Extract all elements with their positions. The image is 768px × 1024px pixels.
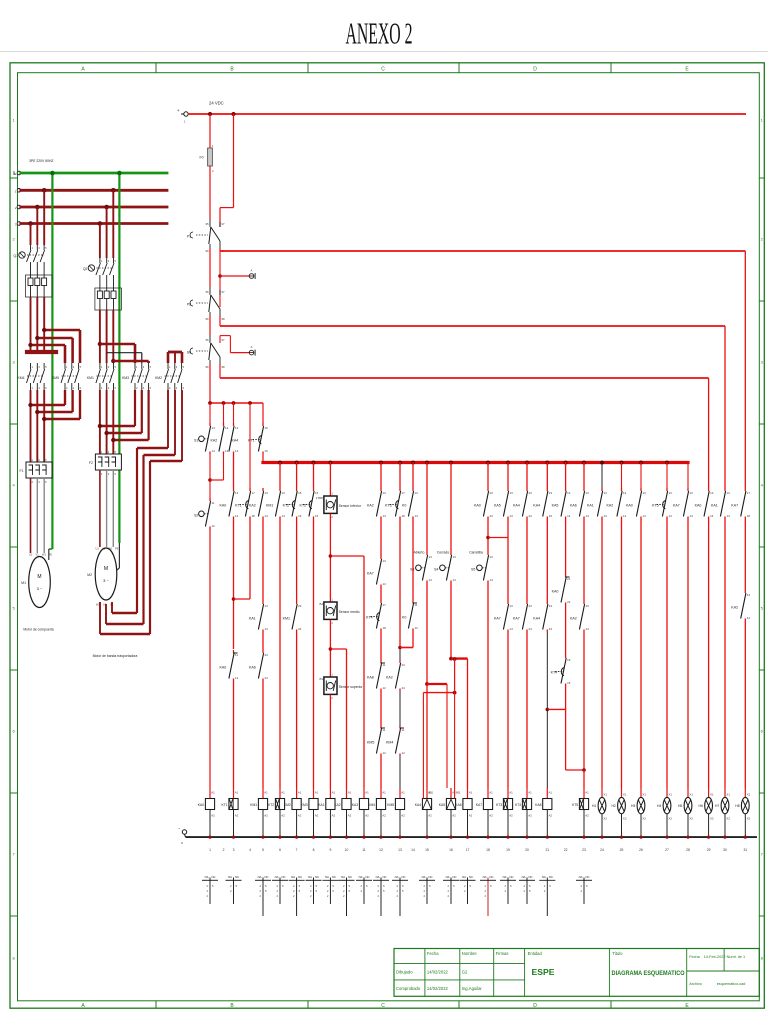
contact KA4 col21 lower xyxy=(533,601,552,632)
wire KA5 B01 stub xyxy=(455,788,462,799)
svg-text:2: 2 xyxy=(32,480,34,484)
svg-text:1: 1 xyxy=(209,848,211,852)
svg-text:PE: PE xyxy=(49,553,53,557)
junction node row col1 xyxy=(208,401,212,405)
svg-text:97: 97 xyxy=(222,290,226,294)
svg-text:B1: B1 xyxy=(320,677,324,681)
svg-text:13: 13 xyxy=(265,491,269,495)
svg-text:5: 5 xyxy=(429,884,431,888)
cross-reference table KM3 xyxy=(306,875,322,904)
svg-text:E: E xyxy=(14,172,16,176)
svg-text:5: 5 xyxy=(332,889,334,893)
svg-text:13: 13 xyxy=(510,491,514,495)
wire S0-12 down to node row xyxy=(209,364,211,403)
svg-text:2: 2 xyxy=(377,889,379,893)
svg-text:6: 6 xyxy=(45,386,47,390)
svg-text:2: 2 xyxy=(464,889,466,893)
contact KA0 col3 xyxy=(220,488,239,519)
svg-text:6: 6 xyxy=(12,729,15,734)
junction power tap xyxy=(111,188,116,193)
svg-text:KA2: KA2 xyxy=(386,676,393,680)
svg-text:13: 13 xyxy=(604,491,608,495)
svg-text:A2: A2 xyxy=(235,814,239,818)
svg-text:3: 3 xyxy=(176,365,178,369)
wire PE drop motor1 xyxy=(51,173,53,549)
svg-text:A1: A1 xyxy=(235,791,239,795)
contact KA4 col21 xyxy=(533,488,552,519)
svg-text:A2: A2 xyxy=(365,814,369,818)
wire rail 2 xyxy=(220,250,745,252)
wire step feed P1-NO xyxy=(220,114,234,227)
svg-text:96: 96 xyxy=(206,317,210,321)
svg-text:NC: NC xyxy=(510,875,514,879)
svg-text:17: 17 xyxy=(747,491,751,495)
wire M2 bottom loop c xyxy=(100,602,150,634)
svg-text:S1: S1 xyxy=(194,439,198,443)
svg-text:DIAGRAMA ESQUEMATICO: DIAGRAMA ESQUEMATICO xyxy=(612,970,685,977)
contact KA1 col5 xyxy=(249,601,268,632)
coil KT4 xyxy=(515,788,532,837)
svg-text:2: 2 xyxy=(447,894,449,898)
svg-text:13: 13 xyxy=(415,491,419,495)
svg-text:2: 2 xyxy=(504,889,506,893)
svg-text:5: 5 xyxy=(115,450,117,454)
cross-reference table KA2 xyxy=(339,875,355,916)
svg-text:NC: NC xyxy=(586,875,590,879)
wire col7 bus drop xyxy=(296,462,298,488)
svg-text:KT4: KT4 xyxy=(515,803,521,807)
svg-text:17: 17 xyxy=(383,603,387,607)
svg-text:B2: B2 xyxy=(320,602,324,606)
junction rail col16 xyxy=(449,836,452,839)
svg-text:4: 4 xyxy=(12,483,15,488)
svg-text:X2: X2 xyxy=(710,817,714,821)
junction km1 feeds xyxy=(98,342,116,363)
svg-text:NA: NA xyxy=(542,875,546,879)
cross-reference table KA5 xyxy=(443,875,459,904)
svg-text:2: 2 xyxy=(331,696,333,700)
svg-text:14: 14 xyxy=(710,514,714,518)
svg-text:17: 17 xyxy=(466,848,470,852)
wire rail 3 xyxy=(220,325,725,327)
svg-text:4: 4 xyxy=(73,386,75,390)
svg-text:96: 96 xyxy=(206,365,210,369)
svg-text:KA2: KA2 xyxy=(211,439,218,443)
svg-text:5: 5 xyxy=(366,884,368,888)
wire KM3 feed c xyxy=(113,361,148,363)
svg-text:2: 2 xyxy=(259,894,261,898)
wire col11 feed xyxy=(363,556,365,788)
svg-text:2: 2 xyxy=(293,889,295,893)
svg-text:2: 2 xyxy=(504,884,506,888)
svg-text:2: 2 xyxy=(101,472,103,476)
svg-text:13: 13 xyxy=(623,491,627,495)
svg-text:14/02/2022: 14/02/2022 xyxy=(427,986,449,991)
svg-text:A1: A1 xyxy=(264,791,268,795)
svg-text:A2: A2 xyxy=(264,814,268,818)
svg-text:X2: X2 xyxy=(623,817,627,821)
svg-text:2: 2 xyxy=(223,848,225,852)
wire col12 a xyxy=(380,519,382,556)
wire col3 node-KA4 xyxy=(233,403,235,423)
svg-text:Dibujado: Dibujado xyxy=(396,969,413,974)
wire col15 bus drop xyxy=(426,462,428,552)
svg-text:2: 2 xyxy=(484,889,486,893)
svg-text:13: 13 xyxy=(453,555,457,559)
svg-text:2: 2 xyxy=(101,386,103,390)
cross-reference table KA7 xyxy=(480,875,496,916)
svg-text:14: 14 xyxy=(567,514,571,518)
svg-text:Fecha: Fecha xyxy=(427,951,439,956)
svg-text:KA8: KA8 xyxy=(535,803,542,807)
svg-text:15: 15 xyxy=(425,848,429,852)
svg-text:23: 23 xyxy=(490,491,494,495)
svg-text:K0: K0 xyxy=(402,616,406,620)
terminal PE xyxy=(14,171,21,176)
pushbutton S4 Cerrado xyxy=(434,552,456,583)
wire col21 b xyxy=(546,632,548,709)
cross-reference table KA8 xyxy=(539,875,555,916)
svg-text:B01: B01 xyxy=(429,791,434,795)
svg-text:22: 22 xyxy=(567,600,571,604)
svg-text:C: C xyxy=(381,67,385,73)
svg-text:2: 2 xyxy=(423,889,425,893)
wire col18 a xyxy=(487,519,489,552)
svg-text:24: 24 xyxy=(298,627,302,631)
wire col6 bus drop xyxy=(279,462,281,488)
cross-reference table KT3 xyxy=(500,875,516,904)
wire col13 a xyxy=(399,519,401,648)
coil KT1 xyxy=(221,788,238,837)
junction rail col6 xyxy=(278,836,281,839)
svg-text:6: 6 xyxy=(115,472,117,476)
cross-reference table KM1 xyxy=(255,875,271,916)
svg-text:KA1: KA1 xyxy=(249,617,256,621)
svg-text:24: 24 xyxy=(549,514,553,518)
svg-text:KM4: KM4 xyxy=(386,741,393,745)
sensor B2 medio xyxy=(320,598,360,626)
svg-text:12: 12 xyxy=(383,751,387,755)
wire col21 to coil KA8 xyxy=(546,709,548,788)
wire KA4 B01 stub xyxy=(423,788,433,799)
svg-text:KT2: KT2 xyxy=(283,504,290,508)
svg-text:A1: A1 xyxy=(298,791,302,795)
coil KA4 xyxy=(415,788,432,837)
svg-text:M2: M2 xyxy=(87,573,92,577)
wire KM5 return c xyxy=(44,390,80,419)
svg-text:+: + xyxy=(177,108,180,113)
svg-text:16: 16 xyxy=(265,449,269,453)
junction power tap xyxy=(42,188,47,193)
wire col23 a xyxy=(583,519,585,601)
contact KA5 col19 xyxy=(494,488,513,519)
wire Q1 feeders xyxy=(31,190,45,245)
svg-text:2: 2 xyxy=(544,884,546,888)
svg-text:1: 1 xyxy=(32,458,34,462)
svg-text:W1: W1 xyxy=(109,547,113,551)
wire M2 bottom loop a xyxy=(112,602,137,613)
svg-text:9: 9 xyxy=(329,848,331,852)
svg-text:KA7: KA7 xyxy=(494,617,501,621)
svg-text:2: 2 xyxy=(580,889,582,893)
svg-text:30: 30 xyxy=(723,848,727,852)
svg-text:1: 1 xyxy=(169,365,171,369)
svg-text:14: 14 xyxy=(383,582,387,586)
svg-text:2: 2 xyxy=(377,894,379,898)
junction col9 y556 xyxy=(329,554,333,558)
contact KT1 col5 top xyxy=(248,423,268,454)
wire col23 bus drop xyxy=(583,462,585,488)
cross-reference table KM4 xyxy=(373,875,389,916)
wire L2 bus xyxy=(21,206,167,209)
contact KA6 col23 xyxy=(570,488,589,519)
wire Q2 to KM1 xyxy=(100,310,113,363)
junction rail col30 xyxy=(723,836,726,839)
svg-text:18: 18 xyxy=(383,626,387,630)
svg-text:NC: NC xyxy=(469,875,473,879)
svg-text:11: 11 xyxy=(402,728,405,732)
svg-text:A1: A1 xyxy=(281,791,285,795)
wire crossover a xyxy=(44,330,80,363)
wire col1 node-S1 xyxy=(209,403,211,423)
svg-text:NC: NC xyxy=(453,875,457,879)
svg-text:4: 4 xyxy=(176,386,178,390)
svg-text:A1: A1 xyxy=(469,791,473,795)
wire col5 to coil KM1 xyxy=(262,681,264,788)
contact KT4 col12 xyxy=(366,600,386,631)
contact KA2 col5 xyxy=(249,488,268,519)
svg-text:KT4: KT4 xyxy=(551,671,558,675)
svg-text:5: 5 xyxy=(115,259,117,263)
svg-text:13: 13 xyxy=(710,491,714,495)
svg-text:2: 2 xyxy=(259,884,261,888)
svg-text:13: 13 xyxy=(225,426,229,430)
svg-text:KA7: KA7 xyxy=(731,504,738,508)
junction col9 y649 xyxy=(329,647,333,651)
contact KT3 col13 xyxy=(385,488,405,519)
junction tap A1 xyxy=(218,274,222,278)
svg-text:A2: A2 xyxy=(281,814,285,818)
svg-text:43: 43 xyxy=(747,593,751,597)
svg-text:3PE 220V 60HZ: 3PE 220V 60HZ xyxy=(29,159,54,163)
svg-text:NA: NA xyxy=(205,875,209,879)
svg-text:2: 2 xyxy=(331,515,333,519)
wire jog col2 to col1 y480 xyxy=(210,454,224,480)
wire col9 to coil KA1 xyxy=(329,695,331,789)
svg-text:Q1: Q1 xyxy=(13,254,18,258)
selector S0 xyxy=(187,335,225,369)
svg-text:2: 2 xyxy=(32,386,34,390)
svg-text:14: 14 xyxy=(429,578,433,582)
title underline rule xyxy=(0,51,768,53)
coil KA2 xyxy=(334,788,351,837)
svg-text:13: 13 xyxy=(235,491,239,495)
wire S0-14 to rail4 xyxy=(219,364,221,378)
svg-text:14: 14 xyxy=(282,514,286,518)
svg-text:23: 23 xyxy=(265,653,269,657)
wire L1 bus xyxy=(21,189,167,192)
wire col25 bus drop xyxy=(621,462,623,488)
svg-text:5: 5 xyxy=(299,889,301,893)
wire col22 c xyxy=(565,686,567,709)
wire F1 to motor1 xyxy=(31,478,45,553)
wire col13 c xyxy=(399,691,401,725)
svg-text:S0: S0 xyxy=(187,351,191,355)
wire col9 B0-B2 xyxy=(329,514,331,603)
coil KM1 xyxy=(250,788,268,837)
wire col18 bus drop xyxy=(487,462,489,488)
svg-text:18: 18 xyxy=(747,514,751,518)
svg-text:14/02/2022: 14/02/2022 xyxy=(427,969,449,974)
svg-text:5: 5 xyxy=(761,606,764,611)
junction rail col9 xyxy=(329,836,332,839)
wire col15 second feed xyxy=(422,693,424,788)
svg-text:17: 17 xyxy=(252,491,256,495)
svg-text:KA2: KA2 xyxy=(367,504,374,508)
svg-text:5: 5 xyxy=(549,884,551,888)
wire M2 bottom loop b xyxy=(106,604,144,624)
svg-text:25: 25 xyxy=(620,848,624,852)
svg-text:Ing.Aguilar: Ing.Aguilar xyxy=(462,986,483,991)
contact KT4 col22 xyxy=(551,655,571,686)
junction node row col3 xyxy=(232,401,236,405)
svg-text:14: 14 xyxy=(604,514,608,518)
wire col1 S1-S2 xyxy=(209,454,211,498)
wire col12 b xyxy=(380,587,382,600)
svg-text:NA: NA xyxy=(258,875,262,879)
svg-text:NA: NA xyxy=(483,875,487,879)
junction col23 y770 xyxy=(582,768,586,772)
border row ticks xyxy=(10,178,764,916)
wire KM2 out b xyxy=(144,390,176,624)
svg-text:2: 2 xyxy=(276,889,278,893)
motor M1 xyxy=(21,553,52,608)
junction rail col21 xyxy=(546,836,549,839)
svg-text:KM5: KM5 xyxy=(387,803,394,807)
contact KA1 col30 xyxy=(711,488,730,519)
svg-text:27: 27 xyxy=(665,848,669,852)
wire KM2 out c xyxy=(150,390,182,634)
wire col16 bus drop xyxy=(450,462,452,552)
svg-text:5: 5 xyxy=(383,889,385,893)
lamp H6 xyxy=(699,788,714,837)
wire jog col16-col17 y658 xyxy=(451,657,468,659)
lamp H8 xyxy=(735,788,750,837)
junction rail col24 xyxy=(600,836,603,839)
svg-text:26: 26 xyxy=(639,848,643,852)
wire col3 KA4-KA0 xyxy=(233,454,235,488)
svg-text:14: 14 xyxy=(727,514,731,518)
svg-text:KM2: KM2 xyxy=(155,376,162,380)
svg-text:S3: S3 xyxy=(410,568,414,572)
svg-text:KA2: KA2 xyxy=(570,617,577,621)
svg-text:16: 16 xyxy=(298,514,302,518)
svg-text:NC: NC xyxy=(490,875,494,879)
svg-text:44: 44 xyxy=(586,627,590,631)
svg-text:KT4: KT4 xyxy=(366,616,373,620)
cross-reference table KA6 xyxy=(460,875,476,904)
svg-text:1: 1 xyxy=(331,492,333,496)
junction rail col15 xyxy=(425,836,428,839)
terminal L3 xyxy=(15,222,21,227)
svg-text:2: 2 xyxy=(66,386,68,390)
junction col16 y658 xyxy=(449,657,453,661)
svg-text:23: 23 xyxy=(549,491,553,495)
svg-text:13: 13 xyxy=(235,426,239,430)
wire rail 4 xyxy=(220,377,709,379)
svg-text:14: 14 xyxy=(235,514,239,518)
svg-text:2: 2 xyxy=(206,894,208,898)
svg-text:11: 11 xyxy=(415,603,418,607)
contact KA0 col29 xyxy=(695,488,714,519)
sensor B0 inferior xyxy=(316,492,362,520)
svg-text:5: 5 xyxy=(402,884,404,888)
wire col24 to lamp H1 xyxy=(601,519,603,788)
cross-reference table KT4 xyxy=(519,875,535,904)
svg-text:98: 98 xyxy=(222,317,226,321)
svg-text:2: 2 xyxy=(206,884,208,888)
svg-text:14: 14 xyxy=(453,578,457,582)
svg-text:5: 5 xyxy=(282,884,284,888)
wire jog col4-col3 y599 xyxy=(234,598,251,600)
svg-text:14: 14 xyxy=(415,514,419,518)
contact KM1 col7 xyxy=(283,601,302,632)
svg-text:14: 14 xyxy=(643,514,647,518)
svg-text:NC: NC xyxy=(383,875,387,879)
wire col21 bus drop xyxy=(546,462,548,488)
contact KA8 col12 xyxy=(367,660,386,691)
svg-text:F0: F0 xyxy=(200,156,204,160)
svg-text:NC: NC xyxy=(429,875,433,879)
wire S0-13 step to test point A lower xyxy=(220,336,249,353)
svg-text:5: 5 xyxy=(349,889,351,893)
overload relay F2 xyxy=(89,450,121,476)
svg-text:X1: X1 xyxy=(603,793,607,797)
contact KA2 col23 xyxy=(570,601,589,632)
svg-text:6: 6 xyxy=(761,729,764,734)
svg-text:KM2: KM2 xyxy=(284,803,291,807)
cross-reference table KM2 xyxy=(289,875,305,916)
svg-text:F2: F2 xyxy=(89,461,93,465)
contactor KM1 xyxy=(87,363,117,390)
svg-text:NA: NA xyxy=(579,875,583,879)
svg-text:KT5: KT5 xyxy=(652,504,659,508)
svg-text:5: 5 xyxy=(236,884,238,888)
svg-text:13: 13 xyxy=(586,491,590,495)
svg-text:NC: NC xyxy=(332,875,336,879)
cross-reference table KA1 xyxy=(322,875,338,904)
svg-text:2: 2 xyxy=(327,894,329,898)
wire jog col21-col22 y709 xyxy=(547,708,565,710)
junction rail col12 xyxy=(379,836,382,839)
wire PE drop motor2 xyxy=(118,173,120,543)
svg-text:18: 18 xyxy=(252,514,256,518)
svg-text:NC: NC xyxy=(315,875,319,879)
svg-text:-: - xyxy=(178,826,180,832)
svg-text:24: 24 xyxy=(402,686,406,690)
lamp H2 xyxy=(611,788,626,837)
svg-text:NA: NA xyxy=(395,875,399,879)
svg-text:13: 13 xyxy=(727,491,731,495)
svg-text:NA: NA xyxy=(446,875,450,879)
contact KA4 col20 xyxy=(513,488,532,519)
wire col5 mid2 xyxy=(262,632,264,650)
svg-text:A2: A2 xyxy=(509,814,513,818)
svg-text:X2: X2 xyxy=(747,817,751,821)
svg-text:A1: A1 xyxy=(585,791,589,795)
contact K0 col14 xyxy=(402,488,418,519)
coil KA0 xyxy=(198,788,215,837)
